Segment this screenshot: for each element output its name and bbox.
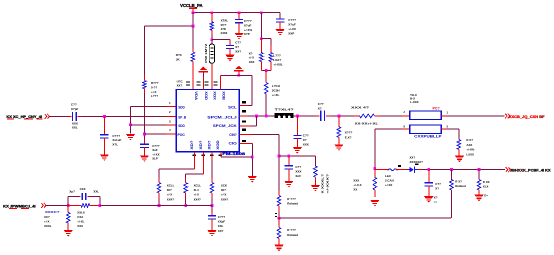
label D1 <box>410 156 424 164</box>
svg-text:Related: Related <box>287 202 298 206</box>
lead R9 bottom <box>278 206 280 213</box>
pin name top VDA <box>194 91 198 100</box>
resistor R16 <box>457 140 461 150</box>
wire JCLJ <box>248 115 275 117</box>
svg-text:XXXL: XXXL <box>44 224 52 228</box>
wire POC vertical top <box>143 26 145 75</box>
svg-text:+/-X: +/-X <box>151 90 156 94</box>
ground C10 <box>207 230 216 236</box>
svg-text:R ???: R ??? <box>287 228 296 232</box>
junction Rpair top <box>260 37 263 40</box>
svg-text:XX?: XX? <box>44 215 50 219</box>
port IO XC_HP_CNY_4I <box>6 114 42 119</box>
capacitor C2 <box>235 19 243 23</box>
svg-text:X: X <box>403 124 405 128</box>
filter module FB1 <box>275 113 294 118</box>
svg-text:X?: X? <box>235 45 239 49</box>
pin name SDD <box>178 124 185 128</box>
label R8b <box>326 174 330 194</box>
svg-text:0-??: 0-?? <box>151 85 157 89</box>
label R1 <box>176 53 183 61</box>
label C4 <box>71 103 79 111</box>
label R5 <box>151 81 159 98</box>
svg-text:T?XL4?: T?XL4? <box>275 108 294 112</box>
resistor R8 <box>314 166 318 177</box>
lead L2 left <box>375 168 388 170</box>
svg-text:R ???: R ??? <box>287 197 296 201</box>
wire JCK up <box>255 116 257 126</box>
label C5 <box>112 134 121 147</box>
svg-text:XXX: XXX <box>353 179 359 183</box>
svg-text:SPCM_JCLJ: SPCM_JCLJ <box>207 116 237 120</box>
label C12b <box>434 196 438 204</box>
svg-text:Related: Related <box>455 184 466 188</box>
wire XOB feedback <box>221 74 253 76</box>
lead D1 out <box>418 168 422 170</box>
svg-text:+/-X%: +/-X% <box>244 28 253 32</box>
label crystal <box>204 43 208 62</box>
wire B4 right <box>221 156 253 158</box>
svg-text:X?uF: X?uF <box>288 23 296 27</box>
svg-text:KX JPWMBCJ_4I: KX JPWMBCJ_4I <box>3 204 35 209</box>
lead R12 top <box>185 178 187 183</box>
pin name bottom XOD <box>216 139 220 149</box>
svg-text:+/-XX: +/-XX <box>288 27 296 31</box>
capacitor C5 <box>100 134 108 138</box>
svg-text:XnF: XnF <box>295 174 301 178</box>
label R3 <box>249 51 255 63</box>
label FM-1808 <box>222 152 245 156</box>
svg-text:2: 2 <box>169 110 171 114</box>
label R16 <box>466 138 474 156</box>
svg-text:JBHXXK_PCBF_4I KX: JBHXXK_PCBF_4I KX <box>510 169 551 173</box>
svg-text:XXL: XXL <box>93 189 99 193</box>
pin mark A <box>398 165 401 167</box>
pin name SPCM_JCK <box>213 124 238 128</box>
wire B1 down <box>158 169 160 178</box>
svg-text:+/-XX: +/-XX <box>385 183 392 187</box>
resistor R14 <box>81 204 90 208</box>
svg-text:SDD: SDD <box>178 124 185 128</box>
svg-text:Xp?: Xp? <box>69 189 75 193</box>
svg-text:Related: Related <box>287 233 298 237</box>
label C2 <box>244 19 253 36</box>
pin name bottom XD? <box>207 140 211 149</box>
lead C11 right <box>87 196 89 198</box>
wire CIN right <box>252 133 279 135</box>
svg-text:XCLL: XCLL <box>194 183 202 187</box>
stub pin SPCM_JCLJ <box>239 115 248 117</box>
wire R5 to POC <box>143 94 145 140</box>
wire PC1 to port <box>446 115 505 117</box>
junction C7 tap <box>296 115 299 118</box>
port symbol 1 <box>45 114 50 119</box>
svg-text:X XXXL?: X XXXL? <box>320 174 324 194</box>
op-amp U1 FM-1808 body <box>176 90 239 152</box>
label L1 <box>272 84 280 97</box>
svg-text:3: 3 <box>169 119 171 123</box>
lead C2 bottom <box>238 22 240 33</box>
svg-text:==: == <box>434 200 438 204</box>
svg-text:PC?: PC? <box>433 106 440 110</box>
svg-text:R X?: R X? <box>466 138 473 142</box>
resistor R15 <box>66 212 70 223</box>
svg-text:R???: R??? <box>151 81 159 85</box>
svg-text:CXXPUBLLP: CXXPUBLLP <box>414 135 442 139</box>
wire bridge upR <box>99 197 101 206</box>
ground R17 stem <box>374 193 375 197</box>
svg-text:L???: L??? <box>273 54 281 58</box>
lead R16 top <box>458 139 460 140</box>
capacitor C7 <box>293 135 301 139</box>
svg-text:XX?: XX? <box>235 50 241 54</box>
pin mark K <box>415 163 418 165</box>
junction R18 tap <box>450 168 453 171</box>
svg-text:2L4: 2L4 <box>194 188 199 192</box>
pin name CIN <box>229 133 236 137</box>
svg-text:R X?: R X? <box>455 180 462 184</box>
svg-text:CIN?: CIN? <box>229 133 236 137</box>
svg-text:XXXC?: XXXC? <box>45 210 60 214</box>
svg-text:FM-1808: FM-1808 <box>222 152 245 156</box>
lead R6 left <box>354 115 360 117</box>
pin name SPCM_JCLJ <box>207 116 237 120</box>
svg-text:KX XC_HP_CNY_4I: KX XC_HP_CNY_4I <box>6 114 42 119</box>
svg-text:XD?: XD? <box>199 140 203 149</box>
svg-text:XX4?: XX4? <box>167 197 174 201</box>
svg-text:X?: X? <box>435 186 439 190</box>
svg-text:XOX: XOX <box>212 91 216 101</box>
inductor L2 <box>388 169 398 171</box>
wire POC row <box>144 133 166 135</box>
svg-text:CXX: CXX <box>80 187 86 191</box>
capacitor C6 <box>140 144 149 148</box>
label R6 top <box>351 106 369 110</box>
capacitor C9 <box>285 165 293 169</box>
capacitor C8 series <box>320 111 325 122</box>
port symbol 2 <box>41 203 46 208</box>
ground R16 <box>455 156 464 162</box>
wire feedback down <box>251 75 253 105</box>
svg-text:XXX: XXX <box>249 60 255 64</box>
wire Rpair bottom link <box>261 69 271 71</box>
wire R19 drop <box>478 169 480 179</box>
capacitor C3 <box>276 18 284 22</box>
capacitor C1 <box>226 45 234 49</box>
pin number PC2 R <box>446 125 448 129</box>
resistor R17 <box>373 177 377 190</box>
wire bridge upL <box>67 197 69 206</box>
label R9 <box>287 197 298 206</box>
lead C11 left <box>79 196 81 198</box>
lead R10 bottom <box>278 239 280 245</box>
port symbol out1 <box>505 114 510 119</box>
junction R19 tap <box>478 168 481 171</box>
lead C8 right <box>326 115 331 117</box>
svg-text:XX?: XX? <box>410 156 416 160</box>
net label JBHXXK_PCBF <box>510 169 551 173</box>
ground R10 <box>274 245 283 251</box>
pin name CIO <box>229 142 238 146</box>
lead R5 bottom <box>143 89 145 94</box>
resistor R13 <box>210 183 214 194</box>
label R11 <box>167 183 175 201</box>
lead C12 top <box>428 169 430 182</box>
svg-text:XXCB_JQ_CXH BF: XXCB_JQ_CXH BF <box>509 115 546 119</box>
power arrow XOD <box>199 67 209 73</box>
stem power XOD <box>202 73 204 78</box>
svg-text:X?P: X?P <box>244 32 250 36</box>
label PC1 <box>433 106 440 110</box>
port2 marks red <box>9 207 29 210</box>
label PC1 info <box>410 93 419 104</box>
resistor R2 <box>210 22 214 30</box>
label R4 <box>273 54 283 67</box>
wire bridge top <box>68 196 79 198</box>
lead C5 bottom <box>103 138 105 155</box>
svg-text:X???: X??? <box>345 131 353 135</box>
label R15 left1 <box>45 210 60 214</box>
junction R7 tap <box>338 115 341 118</box>
port IO JPWMBCJ_4I <box>3 204 35 209</box>
stub pin SP_B <box>166 115 176 117</box>
svg-text:XOB: XOB <box>221 91 225 100</box>
wire R2 to crystal <box>211 35 213 44</box>
svg-text:+/-X: +/-X <box>194 193 199 197</box>
ground C9 <box>284 181 293 187</box>
pin name POC <box>178 133 186 137</box>
stub pin SCL <box>239 105 248 107</box>
wire R18 to long <box>450 190 452 218</box>
ground C5 <box>100 154 109 160</box>
svg-text:XLX: XLX <box>483 185 489 189</box>
svg-text:SDD: SDD <box>178 105 185 109</box>
lead C4 right <box>77 115 81 117</box>
label FB1 <box>275 108 294 112</box>
svg-text:PW 1M?Z: PW 1M?Z <box>204 43 208 62</box>
svg-text:E=: E= <box>484 193 488 197</box>
ground C6 <box>140 155 149 161</box>
svg-text:XX4?: XX4? <box>221 197 228 201</box>
stub pin POC <box>166 133 176 135</box>
lead R8 bottom <box>314 177 316 185</box>
wire CIN down <box>278 134 280 191</box>
ground CIO <box>248 176 257 182</box>
junction POC <box>143 133 146 136</box>
lead R17 bottom <box>374 190 376 197</box>
capacitor C11 bridge <box>82 193 87 200</box>
svg-text:XXpF: XXpF <box>218 220 226 224</box>
ground C1 <box>225 55 234 61</box>
stub pin SDA <box>166 106 176 108</box>
label R19 <box>483 180 490 189</box>
wire tap left <box>144 25 193 27</box>
ground SDD net <box>126 134 135 140</box>
label C8 <box>318 102 324 110</box>
ground R19 <box>474 195 483 201</box>
junction rail-R1 <box>192 11 195 14</box>
stem power XOB <box>238 72 240 76</box>
stub PC2 left <box>402 128 410 130</box>
label C12 <box>435 182 441 190</box>
stub pin SDD2 <box>166 124 176 126</box>
junction CIO-B4 <box>251 156 254 159</box>
svg-text:L&C: L&C <box>385 174 392 178</box>
lead R11 bottom <box>158 193 160 199</box>
svg-text:POC: POC <box>178 133 186 137</box>
svg-text:SCL: SCL <box>228 105 237 109</box>
svg-text:C??: C?? <box>295 165 301 169</box>
pin name SDA <box>178 105 185 109</box>
ground C7 <box>293 147 302 153</box>
label C7 <box>303 133 309 146</box>
wire R9 to node <box>278 213 280 218</box>
junction R11 bus <box>158 204 161 207</box>
lead R9 top <box>278 191 280 196</box>
svg-text:VDA: VDA <box>194 91 198 100</box>
wire port2 <box>46 204 68 206</box>
port symbol out2 <box>506 167 511 172</box>
label R8a <box>320 174 324 194</box>
svg-text:+/-X: +/-X <box>167 193 172 197</box>
lead R15 top <box>67 205 69 212</box>
lead R10 top <box>278 218 280 227</box>
wire CIO down <box>251 143 253 176</box>
svg-text:C??: C?? <box>235 40 241 44</box>
wire port1 to C4 <box>49 115 68 117</box>
label C6 <box>152 144 160 161</box>
resistor R10 <box>277 228 281 239</box>
junction C5 tap <box>103 115 106 118</box>
inductor L1 <box>264 83 268 95</box>
svg-text:VCCLB_PA: VCCLB_PA <box>180 3 202 8</box>
lead R15 bottom <box>67 223 69 230</box>
label C10 <box>218 215 226 233</box>
label C11 <box>80 187 86 191</box>
junction L1 tie <box>265 115 268 118</box>
junction CIN node <box>278 155 281 158</box>
label Xp <box>69 189 75 193</box>
svg-text:2C3H: 2C3H <box>272 88 280 92</box>
wire B3 cont <box>211 205 213 210</box>
lead C3 bottom <box>279 22 281 29</box>
svg-text:XXL: XXL <box>72 126 78 130</box>
wire C8 to R6 <box>331 115 354 117</box>
lead C6 bottom <box>143 147 145 155</box>
wire C4 to pin SP_B <box>81 115 166 117</box>
lead crystal bottom to pin XOX <box>211 63 213 89</box>
capacitor C4 series <box>72 112 77 121</box>
resistor R5 <box>143 81 147 89</box>
pin name SCL <box>228 105 237 109</box>
svg-text:L?CH: L?CH <box>272 84 280 88</box>
svg-text:XD?: XD? <box>207 140 211 149</box>
svg-text:SP_B: SP_B <box>178 116 186 120</box>
lead C9 top <box>288 156 290 165</box>
power arrow XOB net <box>234 66 244 72</box>
svg-text:R?C: R?C <box>176 53 183 57</box>
wire B2 down <box>185 174 187 178</box>
svg-text:L???: L??? <box>151 94 158 98</box>
pin number left 2 <box>169 110 171 114</box>
svg-text:X?pF: X?pF <box>71 107 79 111</box>
junction SDD <box>129 123 132 126</box>
lead R14 left <box>68 204 81 206</box>
wire feedback to SCL <box>248 105 252 107</box>
junction C12 tap <box>427 168 430 171</box>
wire JCK bend <box>250 125 256 127</box>
crystal Y1 <box>209 44 214 63</box>
junction Rpair bottom <box>265 69 268 72</box>
stub pin B4 <box>220 152 222 157</box>
wire L1 to net <box>265 94 267 116</box>
capacitor C10 <box>208 215 216 219</box>
svg-text:CXd: CXd <box>77 215 83 219</box>
wire B1 left <box>159 168 195 170</box>
lead C2 top <box>238 13 240 19</box>
lead R7 bottom <box>338 137 340 144</box>
resistor R18 <box>450 179 454 190</box>
stub pin CIO <box>239 142 252 144</box>
wire SDD vertical <box>130 107 132 134</box>
wire rail down to tap <box>192 13 194 26</box>
lead R4 top <box>270 45 272 53</box>
svg-text:XXX 4?: XXX 4? <box>351 106 369 110</box>
svg-text:LXXX: LXXX <box>466 152 474 156</box>
label L2 <box>385 174 394 187</box>
wire PC2 down <box>374 129 376 168</box>
wire rail end down <box>279 13 281 19</box>
svg-text:XCLL: XCLL <box>167 183 175 187</box>
svg-text:30?: 30? <box>167 188 172 192</box>
stub PC1 right <box>441 115 446 117</box>
label XXL <box>93 189 99 193</box>
wire PC2 right run <box>446 128 459 130</box>
svg-text:X?: X? <box>318 107 322 111</box>
svg-text:XLP: XLP <box>152 157 158 161</box>
svg-text:C??: C?? <box>435 182 441 186</box>
pin name bottom XD? <box>199 140 203 149</box>
stub PC2 right <box>441 128 446 130</box>
svg-text:C???: C??? <box>244 19 252 23</box>
pin number left 1 <box>169 101 171 105</box>
svg-text:AXX: AXX <box>466 143 472 147</box>
junction LED node <box>373 167 376 170</box>
wire B3 down <box>211 160 213 178</box>
svg-text:+/-X: +/-X <box>221 193 226 197</box>
pin name SP_B <box>178 116 186 120</box>
power net label VCCLB_PA <box>180 3 202 8</box>
pin numbers right <box>242 101 246 142</box>
lead R1 top <box>192 49 194 53</box>
lead R1 bottom to pin VDA <box>192 62 194 90</box>
pin name top XOX <box>212 91 216 101</box>
ground C3 <box>276 29 285 35</box>
wire PC2 right drop <box>458 129 460 138</box>
label R10 <box>287 228 298 237</box>
wire R18 drop <box>450 169 452 179</box>
port marks red <box>7 118 43 121</box>
stub PC1 left <box>402 115 410 117</box>
stub pin SPCM_JCK <box>239 125 250 127</box>
junction divider out <box>278 217 281 220</box>
lead R17 top <box>374 168 376 177</box>
junction XOB power <box>237 74 240 77</box>
power symbol VCCLB_PA <box>189 8 197 13</box>
net label XXCB_JQ_CXH <box>509 115 546 119</box>
svg-text:C??: C?? <box>303 133 309 137</box>
lead R12 bottom <box>185 193 187 199</box>
